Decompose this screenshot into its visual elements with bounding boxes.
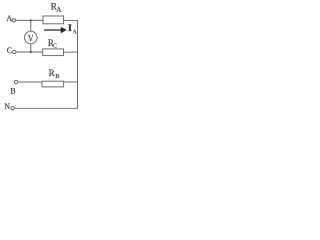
wire right bus: [77, 20, 79, 108]
svg-text:R: R: [49, 68, 55, 78]
svg-text:C: C: [53, 43, 57, 49]
node dot junction C-V: [30, 51, 32, 53]
resistor RB: [42, 81, 64, 87]
svg-text:A: A: [72, 29, 77, 35]
svg-text:A: A: [56, 6, 61, 14]
node dot junction A-V: [30, 19, 32, 21]
terminal N: [11, 107, 14, 110]
wire V to C junction: [30, 44, 32, 52]
svg-text:C: C: [7, 46, 12, 55]
wire RC right to bus: [64, 51, 78, 53]
wire N to bus: [14, 107, 78, 109]
resistor RC: [43, 49, 64, 56]
svg-text:V: V: [28, 35, 33, 45]
svg-text:I: I: [68, 24, 72, 34]
wire RB right to bus: [64, 81, 78, 83]
wire RA right to bus corner: [64, 19, 78, 21]
wire B to RB: [18, 81, 42, 83]
svg-text:B: B: [10, 86, 15, 95]
resistor RA: [43, 16, 64, 24]
current arrow IA: [44, 28, 66, 32]
wire junction A to voltmeter: [30, 20, 32, 31]
wire A to RA: [16, 19, 43, 21]
wire C to RC: [16, 51, 43, 53]
svg-text:A: A: [6, 14, 12, 23]
terminal C: [13, 50, 16, 53]
terminal A: [12, 19, 15, 22]
svg-text:B: B: [55, 73, 60, 80]
voltmeter V: [25, 31, 38, 44]
svg-text:N: N: [4, 102, 10, 111]
terminal B: [14, 80, 17, 83]
